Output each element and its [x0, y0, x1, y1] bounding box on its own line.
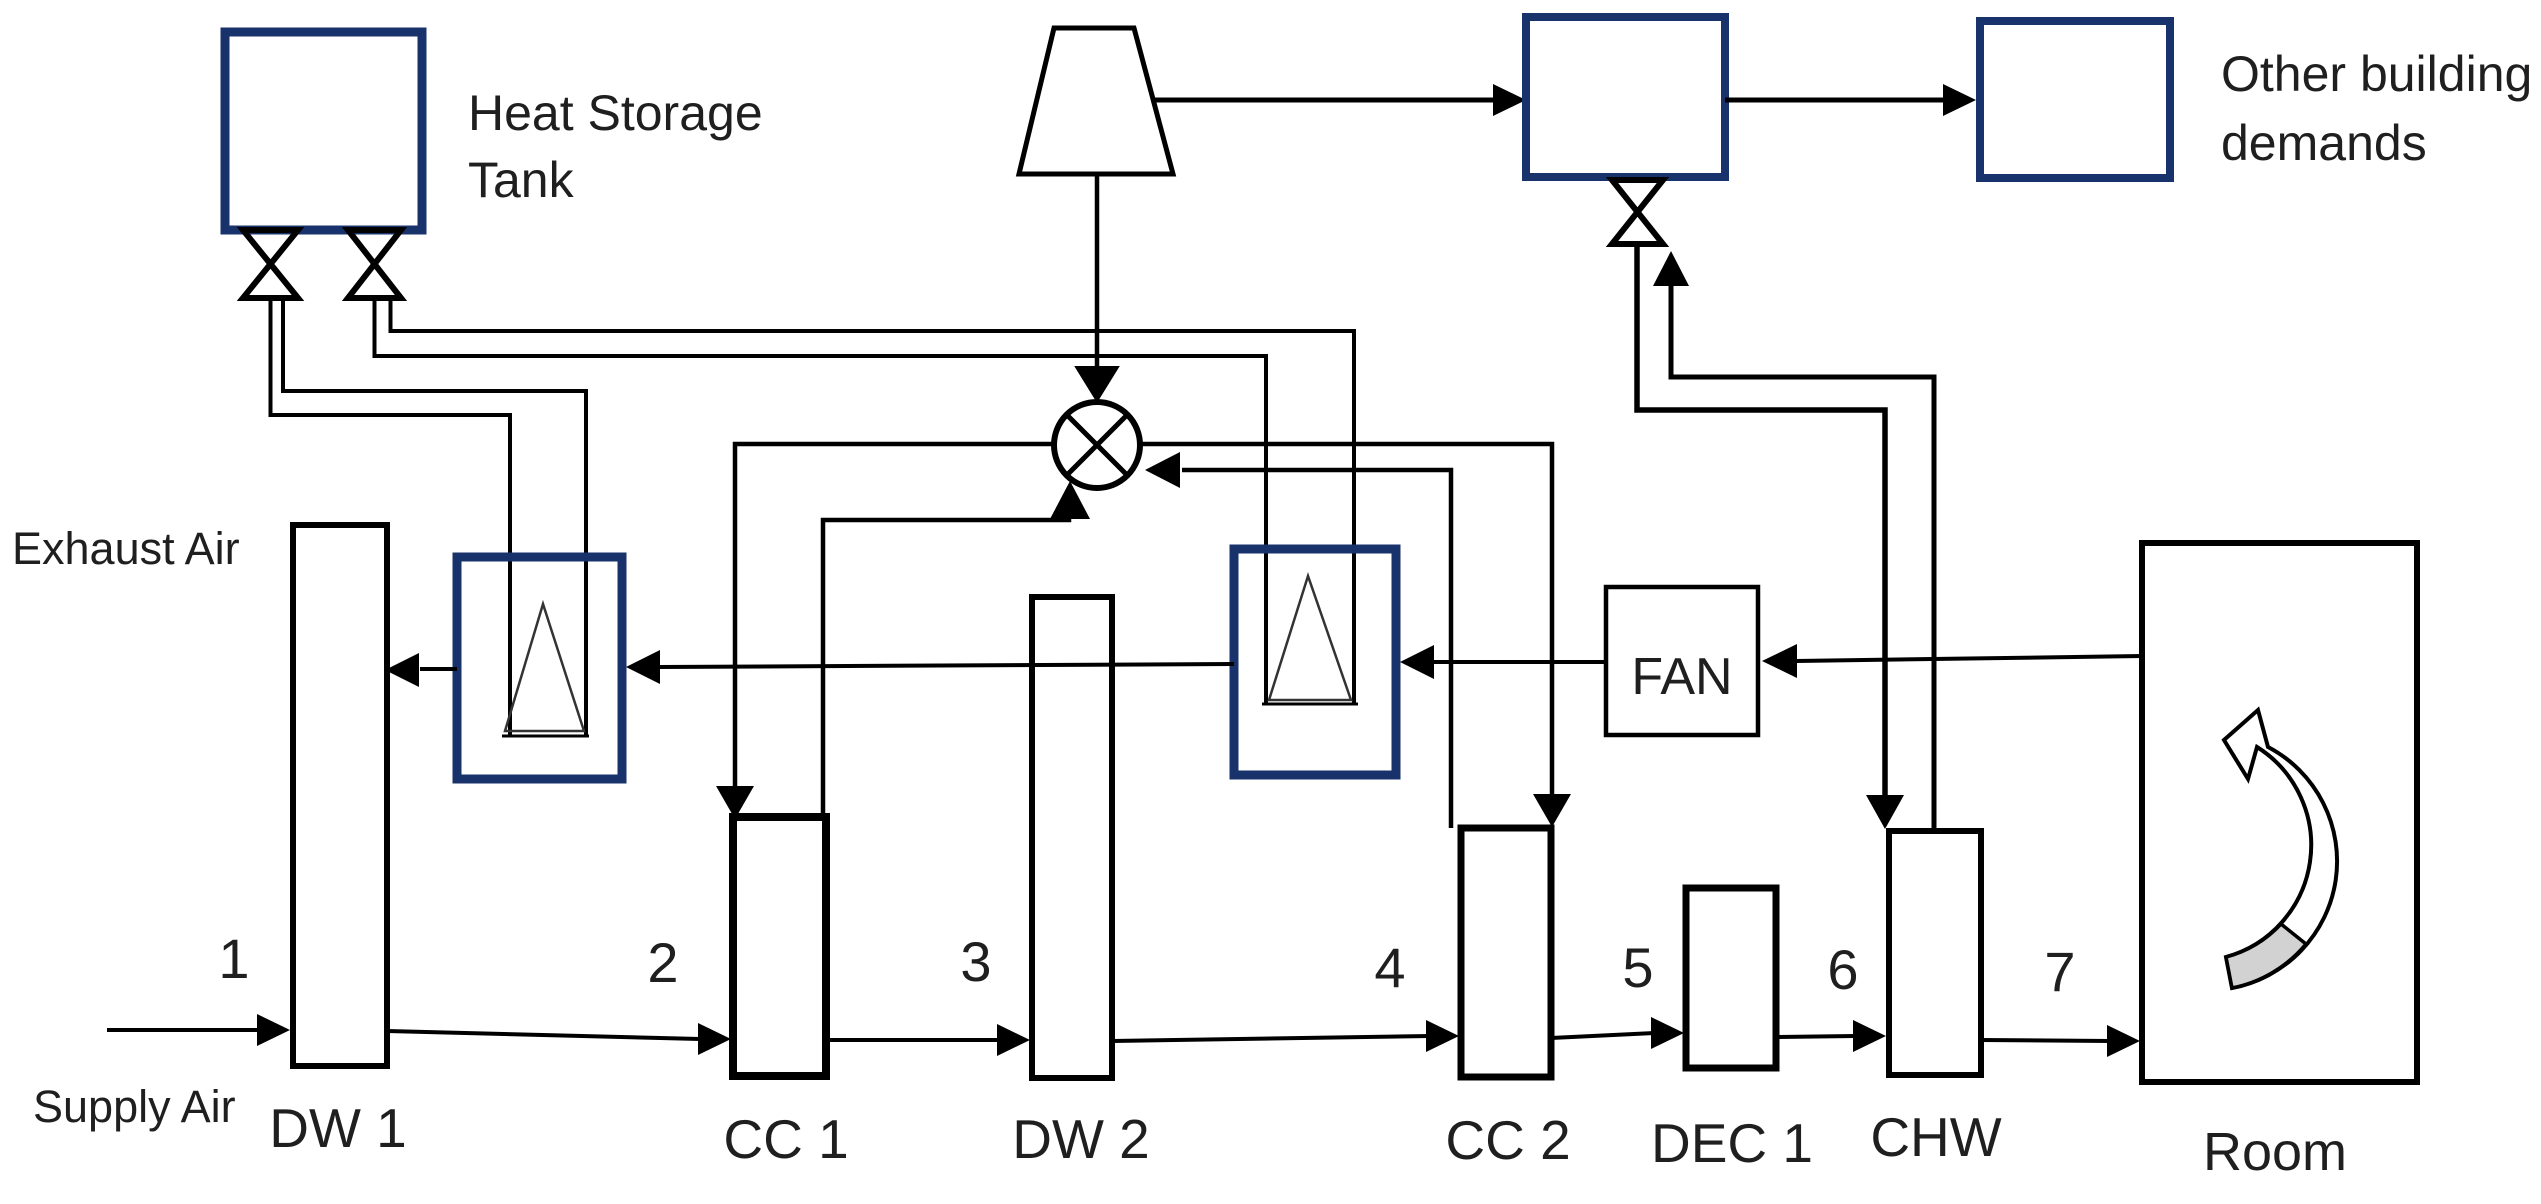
svg-text:Other building: Other building [2221, 46, 2532, 102]
wire top feed: trapezoid to box1 [1155, 98, 1496, 103]
mixing valve circle [1054, 402, 1140, 488]
svg-text:CC 2: CC 2 [1445, 1109, 1570, 1171]
room recirculation curved arrow gray tail [2226, 924, 2306, 988]
arrow into CHW left [1853, 1020, 1886, 1052]
supply wire CC2 to DEC1 [1551, 1033, 1655, 1038]
HX1 blue box [457, 557, 622, 779]
trapezoid cooling tower [1019, 28, 1173, 174]
mixing valve X [1067, 415, 1127, 475]
CHW box [1889, 831, 1981, 1075]
svg-text:DW 2: DW 2 [1012, 1108, 1150, 1170]
svg-text:FAN: FAN [1631, 648, 1732, 706]
arrow into CC1 left [698, 1023, 731, 1055]
box1 building loop [1526, 17, 1725, 177]
wire W6 mixing valve to CC1 feed [735, 444, 1054, 788]
valve V1 under tank [243, 230, 298, 298]
exhaust wire HX2 to HX1 through DW2 [659, 664, 1234, 667]
arrow into CHW top [1866, 795, 1904, 829]
arrow into mixing valve bottom [1050, 481, 1090, 519]
arrow into Room left [2107, 1025, 2140, 1057]
arrow into FAN [1762, 644, 1797, 678]
svg-text:5: 5 [1622, 936, 1653, 999]
HX2 blue box [1234, 549, 1396, 775]
arrow into DEC1 left [1651, 1017, 1684, 1049]
wire W2 valve V1 to HX1 coil right side [283, 298, 586, 736]
svg-text:6: 6 [1827, 938, 1858, 1001]
svg-text:Supply Air: Supply Air [33, 1081, 236, 1132]
svg-text:DW 1: DW 1 [269, 1097, 407, 1159]
DW1 rotor [293, 525, 387, 1066]
arrow into box2 [1943, 84, 1976, 116]
svg-text:demands: demands [2221, 115, 2427, 171]
HX2 coil triangle [1269, 576, 1351, 700]
svg-text:CHW: CHW [1870, 1106, 2001, 1168]
arrow into DW1 left [257, 1014, 290, 1046]
arrow into HX2 [1400, 645, 1434, 679]
heat storage tank [225, 32, 422, 230]
svg-text:7: 7 [2044, 940, 2075, 1003]
DW2 rotor [1032, 597, 1112, 1078]
supply wire inlet to DW1 [107, 1028, 260, 1032]
svg-text:1: 1 [218, 927, 249, 990]
exhaust wire FAN to HX2 [1432, 660, 1606, 664]
svg-text:Exhaust Air: Exhaust Air [12, 523, 240, 574]
supply wire CHW to Room [1981, 1040, 2111, 1041]
arrow into CC2 left [1426, 1020, 1459, 1052]
wire W1 valve V1 to HX1 coil left side [271, 298, 511, 736]
wire W10 valve V3 to CHW feed [1637, 246, 1885, 797]
DEC1 box [1686, 888, 1776, 1068]
supply wire DW1 to CC1 [387, 1031, 700, 1039]
svg-text:3: 3 [960, 930, 991, 993]
arrow into CC1 top [716, 786, 754, 819]
wire W7 CC1 return to mixing valve [823, 505, 1069, 817]
arrow into DW1 [385, 653, 419, 687]
wire W11 CHW return to building loop [1671, 284, 1934, 831]
wire W5 trapezoid to mixing valve [1095, 174, 1100, 370]
supply wire DW2 to CC2 [1112, 1036, 1430, 1041]
wire W4 valve V2 to HX2 coil right side [391, 298, 1355, 704]
Room box [2142, 543, 2417, 1082]
svg-text:4: 4 [1374, 936, 1405, 999]
valve V3 under box1 [1612, 180, 1663, 244]
wire W3 valve V2 to HX2 coil left side [375, 298, 1267, 704]
supply wire DEC1 to CHW [1777, 1036, 1855, 1037]
HX1 coil triangle [505, 604, 584, 731]
svg-text:CC 1: CC 1 [723, 1108, 848, 1170]
CC2 coil box [1461, 828, 1551, 1077]
valve V2 under tank [348, 230, 401, 298]
exhaust wire HX1 to DW1 [420, 667, 457, 671]
arrow into HX1 [626, 650, 660, 684]
wire box1 to box2 [1725, 98, 1946, 103]
CC1 coil box [733, 817, 826, 1076]
arrow into DW2 left [997, 1024, 1030, 1056]
arrow into CC2 top [1533, 794, 1571, 827]
arrow into box1 [1493, 84, 1526, 116]
supply wire CC1 to DW2 [826, 1038, 999, 1042]
exhaust wire room to FAN [1796, 656, 2142, 661]
svg-text:Room: Room [2203, 1122, 2347, 1182]
arrow into mixing valve top [1076, 367, 1118, 401]
arrow up toward box1 [1653, 251, 1689, 286]
FAN box [1606, 587, 1758, 735]
HX2 coil bottom [1262, 703, 1358, 706]
wire W8 mixing valve to CC2 feed [1140, 444, 1552, 797]
svg-text:Tank: Tank [468, 152, 575, 208]
wire W9 CC2 return to mixing valve [1182, 470, 1451, 828]
HX1 coil bottom [502, 735, 589, 738]
svg-text:Heat Storage: Heat Storage [468, 85, 763, 141]
room recirculation curved arrow body [2224, 710, 2337, 988]
box2 other building demands [1980, 21, 2170, 178]
svg-text:2: 2 [647, 931, 678, 994]
arrow into mixing valve right [1145, 452, 1180, 488]
svg-text:DEC 1: DEC 1 [1651, 1112, 1813, 1174]
